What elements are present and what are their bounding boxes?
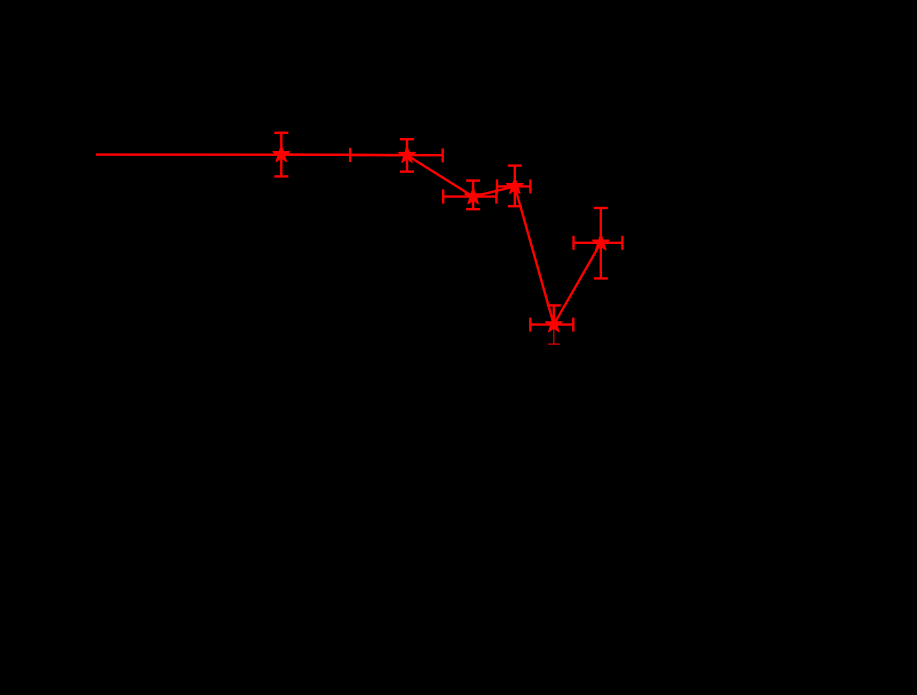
P6 y-error top cap — [594, 207, 608, 209]
P3 x-error right cap — [495, 189, 497, 203]
star marker P3 — [465, 188, 481, 204]
P4 y-error bottom cap — [508, 205, 522, 207]
P1 y-error bottom cap — [274, 175, 288, 177]
star marker P6 — [593, 234, 609, 250]
P4 x-error right cap — [529, 179, 531, 193]
P5 y-error top cap — [547, 304, 561, 306]
P6 x-error bar line — [574, 242, 623, 244]
P1 y-error bar line — [280, 133, 282, 177]
P3 x-error bar line — [443, 195, 496, 197]
P3 x-error left cap — [442, 189, 444, 203]
P5 x-error right cap — [572, 318, 574, 332]
series line: data polyline P1-P6 — [281, 154, 601, 324]
P2 x-error bar line — [350, 154, 443, 157]
P4 x-error left cap — [496, 179, 498, 193]
star marker P4 — [507, 178, 523, 194]
P1 x-error bar line (clipped left, no cap) — [96, 153, 350, 156]
P3 y-error top cap — [466, 179, 480, 181]
P2 y-error top cap — [400, 138, 414, 140]
P6 y-error bar line — [600, 208, 602, 278]
P2 x-error right cap — [442, 148, 444, 162]
P1 x-error right cap — [349, 148, 351, 162]
P2 y-error bar line — [406, 139, 408, 171]
P6 y-error bottom cap — [594, 277, 608, 279]
P5 x-error left cap — [529, 318, 531, 332]
P2 y-error bottom cap — [400, 170, 414, 172]
P3 y-error bar line — [472, 181, 474, 210]
P1 y-error top cap — [274, 132, 288, 134]
P5 y-error lower bar line (thin) — [553, 325, 555, 345]
P3 y-error bottom cap — [466, 208, 480, 210]
P5 y-error upper bar line — [553, 305, 555, 324]
P5 y-error bottom cap (thin) — [548, 343, 560, 345]
star marker P5 — [546, 316, 562, 332]
star marker P2 — [399, 147, 415, 163]
P6 x-error right cap — [621, 236, 623, 250]
P4 y-error bar line — [514, 166, 516, 207]
P6 x-error left cap — [572, 236, 574, 250]
P4 y-error top cap — [508, 164, 522, 166]
star marker P1 — [273, 146, 289, 162]
P4 x-error bar line — [497, 185, 530, 187]
P5 x-error bar line — [530, 323, 573, 325]
